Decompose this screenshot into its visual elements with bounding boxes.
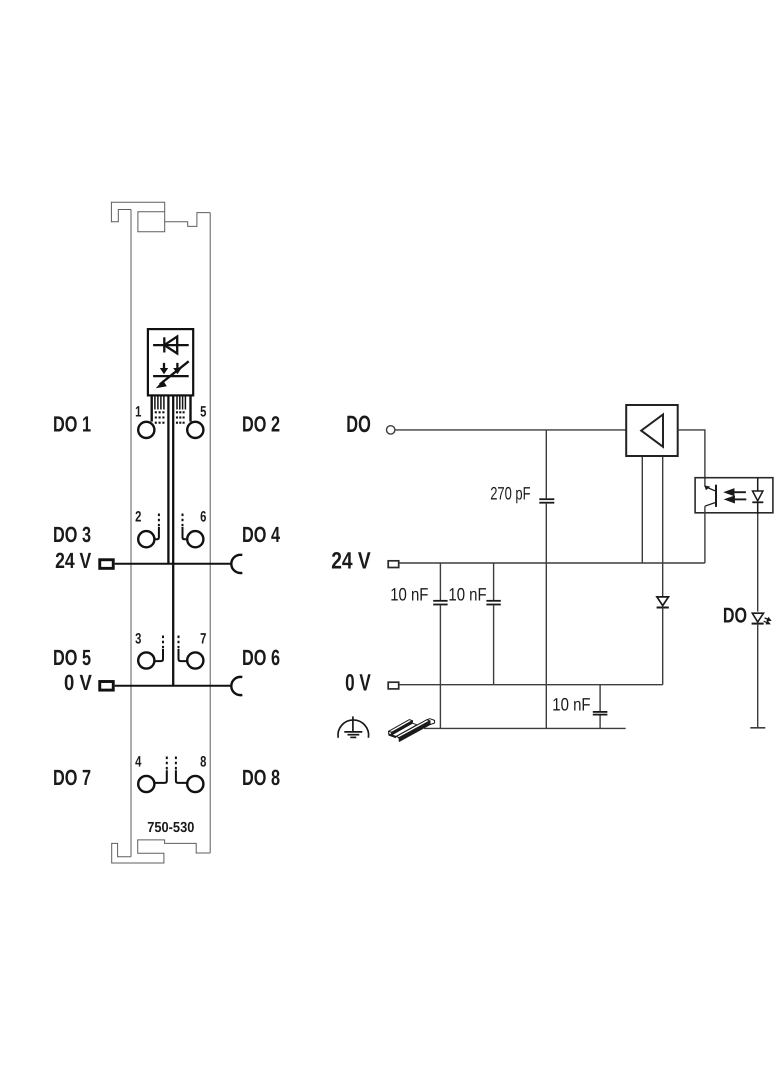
label DO 7 bbox=[53, 765, 91, 790]
svg-text:3: 3 bbox=[135, 631, 141, 648]
module right edge bbox=[209, 213, 211, 853]
24V terminal square (schematic) bbox=[388, 561, 399, 568]
contact 6 hook bbox=[183, 527, 187, 540]
pin number 1 bbox=[135, 403, 141, 420]
contact 2 hook bbox=[155, 527, 159, 540]
label DO (input) bbox=[346, 412, 371, 438]
contact 2 dashed bbox=[158, 514, 160, 527]
label DO 2 bbox=[242, 411, 280, 436]
pin number 2 bbox=[135, 508, 141, 525]
svg-text:8: 8 bbox=[200, 753, 206, 770]
terminal circle 1 bbox=[138, 422, 154, 438]
0V clamp arc bbox=[231, 677, 242, 695]
0V terminal square (schematic) bbox=[388, 682, 399, 689]
0V feed line bbox=[115, 685, 232, 687]
svg-text:DO 1: DO 1 bbox=[53, 411, 91, 436]
0V feed square bbox=[100, 682, 114, 691]
module left edge bbox=[130, 210, 132, 857]
module top outline bbox=[111, 202, 210, 232]
label 10 nF (C3) bbox=[552, 694, 590, 714]
pin number 6 bbox=[200, 508, 206, 525]
wire opto emitter to 24V rail bbox=[704, 506, 706, 563]
svg-text:DO 7: DO 7 bbox=[53, 765, 91, 790]
diode D3 bbox=[657, 597, 669, 608]
label 10 nF (C1) bbox=[390, 585, 428, 605]
svg-text:DO 2: DO 2 bbox=[242, 411, 280, 436]
wire buffer 24V pin bbox=[641, 457, 643, 563]
opto LED bbox=[752, 478, 763, 515]
LED block bbox=[148, 329, 193, 395]
ribbon thick stub left bbox=[150, 396, 152, 422]
contact 6 dashed bbox=[182, 514, 184, 527]
capacitor C1 wire lower bbox=[439, 605, 441, 728]
capacitor C3 10nF bbox=[593, 712, 608, 715]
contact 8 hook bbox=[176, 770, 187, 783]
0V rail bbox=[400, 684, 663, 686]
opto light arrows bbox=[726, 490, 746, 503]
terminal circle 6 bbox=[187, 531, 203, 547]
svg-text:DO 6: DO 6 bbox=[242, 645, 280, 670]
DIN rail icon bbox=[388, 719, 434, 742]
capacitor C1 10nF wire upper bbox=[439, 563, 441, 600]
label 0 V bbox=[64, 670, 92, 695]
part number 750-530 bbox=[147, 820, 194, 836]
capacitor C2 10nF bbox=[486, 601, 500, 605]
LED DO light arrows bbox=[764, 618, 771, 624]
contact 3 dashed bbox=[162, 636, 164, 649]
label 270 pF bbox=[490, 484, 530, 504]
label DO 5 bbox=[53, 645, 91, 670]
svg-text:DO 3: DO 3 bbox=[53, 522, 91, 547]
24V clamp arc bbox=[231, 555, 242, 573]
svg-text:DO 4: DO 4 bbox=[242, 522, 281, 547]
opto transistor Q1 bbox=[704, 485, 716, 507]
svg-text:0 V: 0 V bbox=[345, 670, 371, 696]
contact 7 hook bbox=[179, 649, 187, 661]
buffer triangle bbox=[641, 415, 663, 447]
ribbon dotted wires bbox=[155, 411, 185, 424]
svg-text:DO 5: DO 5 bbox=[53, 645, 91, 670]
capacitor 270pF branch wire lower bbox=[545, 504, 547, 729]
wire buffer gnd pin bbox=[662, 457, 664, 597]
label DO 3 bbox=[53, 522, 91, 547]
contact 3 hook bbox=[155, 649, 163, 661]
optocoupler box bbox=[695, 478, 773, 513]
capacitor C2 10nF wire upper bbox=[493, 563, 495, 600]
terminal circle 2 bbox=[138, 531, 154, 547]
end terminator bar bbox=[750, 727, 765, 729]
svg-text:DO 8: DO 8 bbox=[242, 765, 280, 790]
label 10 nF (C2) bbox=[448, 585, 486, 605]
terminal circle 8 bbox=[187, 776, 203, 792]
label DO (LED) bbox=[723, 604, 747, 628]
module bottom outline bbox=[112, 840, 211, 863]
svg-text:1: 1 bbox=[135, 403, 141, 420]
capacitor C2 wire lower bbox=[493, 605, 495, 684]
svg-text:10 nF: 10 nF bbox=[390, 585, 428, 605]
contact 8 dashed bbox=[175, 757, 177, 770]
LED DO indicator bbox=[752, 613, 764, 623]
pin number 4 bbox=[135, 753, 142, 770]
pin number 3 bbox=[135, 631, 141, 648]
pin number 8 bbox=[200, 753, 206, 770]
DO input terminal bbox=[387, 426, 395, 434]
capacitor C3 wire lower bbox=[599, 716, 601, 729]
ribbon thick stub right bbox=[189, 396, 191, 422]
svg-text:0 V: 0 V bbox=[64, 670, 92, 695]
wire DO to buffer bbox=[395, 429, 626, 431]
terminal circle 4 bbox=[138, 776, 154, 792]
svg-text:750-530: 750-530 bbox=[147, 820, 194, 836]
label 24 V bbox=[55, 548, 91, 573]
contact 4 hook bbox=[155, 770, 167, 783]
24V feed line bbox=[115, 563, 232, 565]
svg-text:2: 2 bbox=[135, 508, 141, 525]
LED block photodiode D2 bbox=[153, 361, 189, 388]
capacitor C1 10nF bbox=[433, 601, 447, 605]
pin number 5 bbox=[200, 403, 206, 420]
svg-text:24 V: 24 V bbox=[55, 548, 91, 573]
internal bus pair bbox=[167, 396, 169, 564]
contact 7 dashed bbox=[178, 636, 180, 649]
terminal circle 5 bbox=[187, 422, 203, 438]
label DO 6 bbox=[242, 645, 280, 670]
terminal circle 7 bbox=[187, 652, 203, 668]
svg-text:4: 4 bbox=[135, 753, 142, 770]
internal bus lower bbox=[172, 564, 174, 686]
ribbon thin wires bbox=[155, 396, 186, 410]
wire buffer out bbox=[678, 430, 705, 487]
svg-text:6: 6 bbox=[200, 508, 206, 525]
label DO 1 bbox=[53, 411, 91, 436]
svg-text:24 V: 24 V bbox=[331, 548, 371, 574]
pin number 7 bbox=[200, 631, 206, 648]
24V feed square bbox=[100, 560, 114, 569]
label DO 8 bbox=[242, 765, 280, 790]
ground bus bbox=[424, 727, 626, 729]
svg-text:10 nF: 10 nF bbox=[552, 694, 590, 714]
wire LED to end bbox=[757, 624, 759, 728]
buffer U1 bbox=[626, 405, 678, 456]
24V rail bbox=[400, 562, 705, 564]
capacitor C3 10nF wire upper bbox=[599, 685, 601, 711]
wire opto LED to DO LED bbox=[757, 514, 759, 611]
capacitor 270pF bbox=[539, 499, 554, 503]
capacitor 270pF branch wire upper bbox=[545, 430, 547, 498]
svg-text:270 pF: 270 pF bbox=[490, 484, 530, 504]
earth symbol bbox=[338, 716, 369, 737]
wire D3 to 0V bbox=[662, 608, 664, 685]
label 0 V (schematic) bbox=[345, 670, 371, 696]
contact 4 dashed bbox=[166, 757, 168, 770]
svg-text:5: 5 bbox=[200, 403, 206, 420]
label DO 4 bbox=[242, 522, 281, 547]
svg-text:DO: DO bbox=[723, 604, 747, 628]
terminal circle 3 bbox=[138, 652, 154, 668]
svg-text:DO: DO bbox=[346, 412, 371, 438]
LED block diode D1 bbox=[153, 337, 189, 354]
label 24 V (schematic) bbox=[331, 548, 371, 574]
svg-text:7: 7 bbox=[200, 631, 206, 648]
svg-text:10 nF: 10 nF bbox=[448, 585, 486, 605]
